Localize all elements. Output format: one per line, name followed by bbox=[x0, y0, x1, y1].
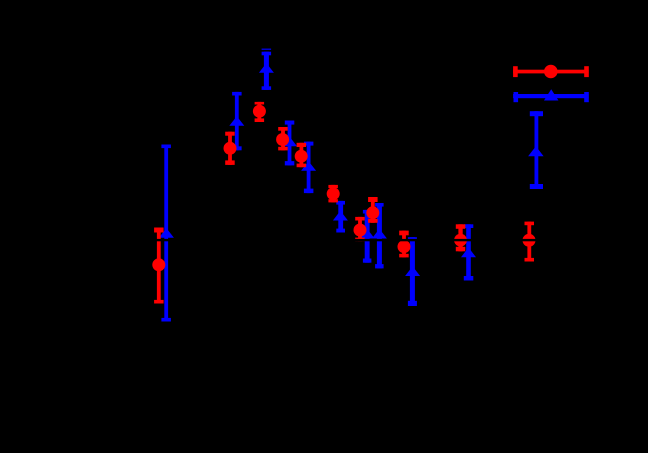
point R9 circle marker bbox=[398, 240, 411, 253]
legend blue entry: horizontal bar with end caps and triangle marker bbox=[513, 89, 589, 102]
point R2 circle marker bbox=[224, 142, 237, 155]
point B6 error bar bbox=[336, 201, 345, 233]
point B1 triangle marker bbox=[159, 228, 174, 238]
point B3 triangle marker bbox=[259, 63, 274, 73]
point R4 error bar bbox=[278, 127, 288, 150]
point R10 circle marker bbox=[454, 234, 467, 247]
point B4 triangle marker bbox=[282, 137, 297, 147]
point B8 triangle marker bbox=[372, 229, 387, 239]
point R6 error bar bbox=[328, 185, 338, 203]
point R10 error bar bbox=[456, 224, 466, 251]
point B2 error bar bbox=[232, 92, 242, 150]
point B4 error bar bbox=[285, 121, 295, 166]
point R3 error bar bbox=[255, 102, 265, 122]
point R11 error bar bbox=[525, 222, 535, 262]
point B1 error bar bbox=[161, 145, 171, 322]
point R3 circle marker bbox=[253, 105, 266, 118]
point R5 circle marker bbox=[295, 150, 308, 163]
point B3 thin outer cap bbox=[262, 49, 272, 50]
point B10 error bar bbox=[464, 224, 474, 280]
point B9 error bar bbox=[408, 237, 417, 306]
point R6 circle marker bbox=[327, 187, 340, 200]
point R7 circle marker bbox=[354, 224, 367, 237]
point B9 triangle marker bbox=[405, 266, 420, 276]
point R1 error bar bbox=[154, 228, 164, 304]
point B11 triangle marker bbox=[528, 146, 544, 156]
point B10 triangle marker bbox=[461, 248, 476, 258]
point R7 error bar bbox=[355, 217, 365, 241]
point B7 error bar bbox=[363, 210, 372, 263]
point R4 circle marker bbox=[276, 133, 289, 146]
black horizontal reference line at ratio=1 (drawn over data) bbox=[85, 239, 585, 241]
point B11 error bar bbox=[530, 111, 543, 189]
point B8 error bar bbox=[375, 203, 384, 268]
point R2 error bar bbox=[225, 132, 235, 165]
point B3 error bar bbox=[262, 52, 272, 90]
point R8 circle marker bbox=[366, 206, 379, 219]
point B5 error bar bbox=[304, 142, 314, 194]
point R11 circle marker bbox=[523, 234, 536, 247]
point R8 error bar bbox=[368, 197, 378, 223]
point B7 triangle marker bbox=[360, 229, 375, 239]
point R5 error bar bbox=[297, 143, 307, 167]
point R1 circle marker bbox=[152, 258, 165, 271]
point B2 triangle marker bbox=[229, 116, 244, 126]
point R9 error bar bbox=[399, 231, 409, 258]
point B5 triangle marker bbox=[301, 161, 316, 171]
legend red entry: horizontal bar with end caps and circle marker bbox=[513, 65, 589, 79]
point B6 triangle marker bbox=[333, 211, 348, 221]
